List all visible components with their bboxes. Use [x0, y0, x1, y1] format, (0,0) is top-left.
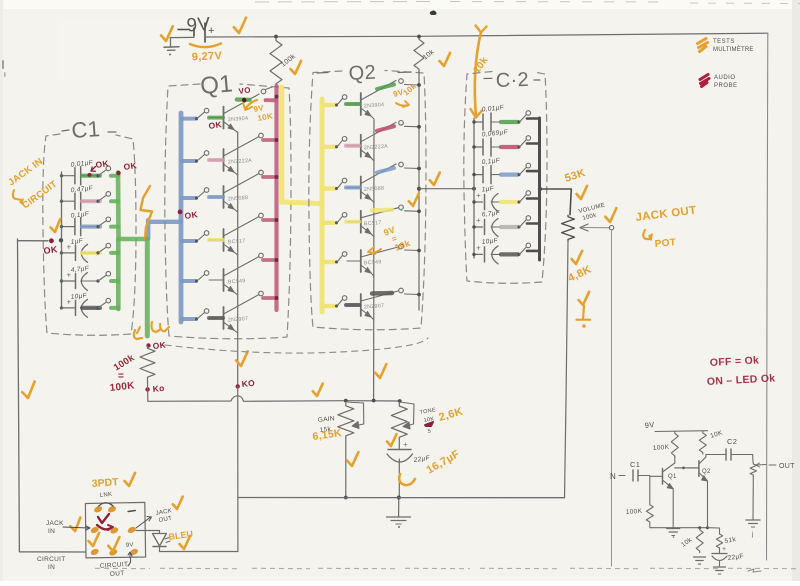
capacitor C2 row2 0,069µF: [474, 129, 509, 156]
checkmark mid rail 2: [312, 384, 324, 397]
wire stub Q2 collector row3: [405, 167, 420, 170]
switch C2 row3: [518, 163, 531, 176]
transistor Q2 row2 2N2222A: [347, 122, 396, 161]
highlight bar C2 row3: [501, 173, 518, 177]
transistor Q2 row6 2N2907: [347, 291, 398, 320]
wire lug row2 to LED: [136, 530, 160, 532]
junction dot pink bus row6: [275, 296, 279, 300]
svg-text:BC549: BC549: [364, 259, 382, 266]
transistor Q2 row3 2N5088: [347, 164, 396, 203]
annotation JACK IN CIRCUIT: [6, 156, 59, 211]
junction dot Q2 right bus row6: [417, 293, 421, 297]
dashed box C2: [464, 72, 547, 284]
switch C1 row4: [96, 243, 110, 254]
wire blue stub Q1 row6: [182, 317, 196, 321]
wire green stub C1 row3: [111, 225, 119, 229]
capacitor C2 row1 0,01µF: [474, 104, 505, 131]
highlight bar C2 row2: [501, 145, 518, 149]
capacitor C1 row5 4,7µF: [62, 265, 98, 290]
junction gain top: [344, 399, 348, 403]
potentiometer GAIN: [317, 402, 363, 439]
svg-text:OK: OK: [95, 158, 110, 170]
red KO at Q1 emitter: [236, 378, 256, 389]
switch Q1 row4: [195, 231, 209, 243]
wire Q2 right bus: [418, 71, 420, 310]
switch Q1 row5 collector contact: [259, 253, 264, 258]
wire C2 to volume pot: [541, 189, 571, 215]
junction dot pink bus row2: [275, 138, 279, 142]
wire yellow stub Q2 row1: [323, 103, 336, 107]
scan speck top: [430, 11, 437, 16]
capacitor C2 row4 1µF: [474, 185, 500, 211]
svg-text:C1: C1: [630, 460, 640, 469]
svg-text:KO: KO: [241, 378, 255, 389]
wire left border: [18, 239, 87, 552]
capacitor C2 row5 6,7µF: [474, 210, 501, 237]
svg-text:BC517: BC517: [364, 220, 382, 227]
red OK mark C1 top right: [116, 160, 138, 175]
checkmark near battery left: [160, 26, 174, 41]
transistor Q1 row1 2N3904: [209, 94, 259, 133]
transistor Q1 row6 2N2907: [209, 295, 259, 334]
wire bias to bottom: [650, 524, 708, 528]
wire yellow stub Q2 row4: [323, 221, 336, 225]
wire green stub C1 row1: [111, 174, 119, 178]
switch C2 row2: [518, 136, 531, 149]
junction dot Q2 right bus row4: [417, 209, 421, 213]
checkmark below 53K: [576, 186, 588, 200]
wire gain to ground rail: [345, 439, 347, 498]
svg-text:100K: 100K: [653, 444, 670, 452]
junction dot Q2 right bus row2: [417, 125, 421, 129]
lug row3 right: [129, 548, 139, 557]
wire blue bus Q1: [179, 113, 184, 322]
wire Q1 emitter bus: [237, 132, 239, 385]
red check arrow in box: [97, 514, 113, 530]
svg-text:JACK: JACK: [46, 520, 64, 527]
checkmark right of wiper: [605, 208, 618, 222]
wire heavy stub C2 row1: [527, 117, 539, 120]
wire yellow stub Q2 row2: [323, 145, 336, 149]
wire blue stub Q1 row5: [182, 279, 196, 283]
wire green stub C1 row6: [111, 306, 119, 310]
wire green down to 100K: [145, 239, 150, 336]
switch C2 row6: [518, 243, 531, 256]
wire 100K bottom to mid rail: [148, 380, 400, 401]
highlight bar Q2 row6 base: [346, 303, 359, 307]
switch Q2 row6 collector contact: [399, 288, 404, 293]
ground symbol out small: [746, 520, 760, 538]
orange double arrow 10k to C2: [471, 26, 491, 118]
wire 9V rail: [170, 33, 768, 37]
potentiometer VOLUME 100K: [562, 203, 606, 242]
checkmark above input: [50, 219, 62, 232]
checkmark above orange ground: [578, 292, 590, 306]
svg-text:9V: 9V: [126, 542, 135, 549]
dashed box Q2: [309, 71, 426, 330]
svg-text:9,27V: 9,27V: [192, 50, 223, 64]
svg-text:OUT: OUT: [110, 570, 125, 578]
svg-text:BC517: BC517: [228, 238, 246, 245]
highlight bar C1 row2: [82, 199, 100, 203]
lug row3 mid: [108, 548, 118, 557]
lug row2 right: [127, 526, 137, 535]
label LNK with arc: [97, 492, 114, 508]
highlight bar C2 row5: [501, 225, 518, 229]
highlight bar C1 row4: [82, 251, 100, 255]
wire heavy stub C2 row5: [527, 222, 539, 225]
svg-text:+: +: [476, 216, 481, 225]
resistor 100K mid: [140, 346, 155, 381]
orange marks at green end: [134, 322, 169, 339]
wire yellow rail Q1 to Q2: [282, 87, 320, 204]
wire in dash: [619, 475, 625, 477]
transistor Q1 row4 BC517: [209, 217, 259, 256]
switch Q1 row2: [195, 151, 209, 163]
switch Q2 row5 collector contact: [399, 244, 404, 249]
svg-text:Q2: Q2: [348, 62, 376, 85]
wire Q2 emitter down: [707, 481, 709, 528]
checkmark near battery right: [233, 18, 247, 34]
wire heavy stub C2 row4: [527, 197, 539, 200]
svg-text:100K: 100K: [626, 508, 643, 516]
svg-text:OK: OK: [208, 119, 223, 131]
label C1: [62, 116, 116, 143]
transistor Q1 row5 BC549: [209, 257, 259, 296]
wire yellow stub Q2 row5: [323, 260, 336, 264]
annotation JACK OUT POT: [635, 205, 697, 250]
jack in wire: [18, 240, 49, 242]
switch Q1 row3 collector contact: [259, 170, 264, 175]
switch 3PDT box: [85, 502, 145, 558]
wire ground rail: [238, 497, 565, 499]
svg-text:Ko: Ko: [152, 383, 165, 394]
capacitor C2 row3 0,1µF: [474, 157, 501, 183]
checkmark left of jack in: [69, 518, 82, 532]
wire yellow stub Q2 row3: [323, 186, 336, 190]
red OK marks C1 row1: [88, 158, 111, 177]
junction dot Q2 right bus row5: [417, 249, 421, 253]
checkmark curved below cap: [399, 474, 415, 485]
transistor Q2 row5 BC549: [347, 247, 398, 276]
checkmark on lug row2: [88, 533, 100, 547]
lug row2 left: [90, 526, 100, 535]
lug row1 mid: [107, 505, 117, 514]
svg-text:POT: POT: [654, 237, 676, 250]
switch Q2 row4 collector contact: [399, 205, 404, 210]
wire 22uF to ground: [398, 498, 400, 517]
wire green stub C1 row4: [111, 251, 119, 255]
wire stub Q2 collector row2: [405, 125, 420, 128]
svg-text:OK: OK: [184, 209, 199, 221]
switch Q1 row5: [195, 271, 209, 283]
resistor small 100K top: [653, 431, 679, 458]
highlight bar Q2 row4 collector: [372, 208, 392, 213]
svg-text:1µF: 1µF: [70, 238, 84, 246]
wire C1 left bus: [61, 172, 63, 308]
label CIRCUIT IN: [37, 556, 65, 571]
wire lug row2 to jack out arrow: [136, 508, 173, 528]
switch Q2 row1 collector contact: [399, 79, 404, 84]
switch Q1 row1 collector to 100K: [261, 87, 272, 94]
highlight bar Q1 row3 base: [209, 195, 223, 199]
ground small 10k: [694, 557, 706, 565]
checkmark near wire Q2-C2: [429, 173, 441, 186]
faint top scan edge: [255, 2, 800, 4]
checkmark left of mid rail: [235, 351, 249, 366]
svg-text:VO: VO: [238, 85, 251, 96]
capacitor C1 small: [633, 470, 650, 481]
wire pink stub Q1 row2: [263, 138, 275, 142]
wire Q2 emitter bus: [373, 120, 375, 401]
wire yellow bus Q2: [320, 99, 325, 312]
potentiometer OUT small: [750, 455, 795, 478]
checkmark below Q2: [375, 364, 388, 378]
resistor small 10K top: [699, 429, 724, 454]
label Q2: [317, 62, 411, 85]
transistor Q1 small: [650, 463, 677, 489]
junction 22uF ground rail: [397, 496, 401, 500]
highlight bar C2 row4: [501, 200, 518, 204]
svg-text:Q2: Q2: [702, 469, 711, 475]
highlight bar Q2 row4 base: [346, 220, 359, 224]
checkmark jack out: [172, 497, 184, 510]
resistor 100K top: [270, 35, 297, 88]
capacitor 22µF: [387, 440, 431, 498]
capacitor C1 row4 1µF: [62, 238, 98, 263]
orange annotation 9V=10k mid Q2: [368, 225, 412, 254]
pencil corner mark: [748, 569, 761, 572]
transistor Q2 row4 BC517: [347, 208, 398, 237]
checkmark far left mid: [21, 382, 37, 399]
wire blue branch to Q1 bus: [148, 220, 181, 239]
wire green stub C1 row5: [111, 279, 119, 283]
wire pink stub Q1 row1: [264, 98, 276, 102]
wire heavy stub C2 row6: [527, 250, 539, 253]
switch Q2 row4: [335, 213, 347, 225]
highlight bar C2 row6: [501, 252, 518, 256]
svg-text:Q1: Q1: [199, 70, 234, 100]
svg-text:CIRCUIT: CIRCUIT: [37, 556, 65, 563]
orange ground mark: [577, 306, 591, 328]
highlight bar Q1 row1 base: [209, 116, 223, 120]
svg-text:OUT: OUT: [779, 463, 795, 470]
svg-text:IN: IN: [48, 528, 55, 535]
capacitor C1 row2 0,47µF: [62, 185, 98, 210]
lug row2 mid: [109, 526, 119, 535]
svg-text:+: +: [722, 546, 726, 553]
ground symbol center: [387, 517, 411, 528]
switch Q2 row1: [335, 95, 347, 107]
svg-text:+: +: [476, 191, 481, 200]
checkmark left of 22uF: [386, 434, 397, 446]
svg-text:C·2: C·2: [495, 69, 529, 92]
highlight bar Q1 row2 base: [209, 158, 223, 162]
highlight bar Q1 row1 collector green: [237, 97, 250, 102]
switch C1 row6: [96, 298, 110, 309]
lug row1 left: [93, 505, 103, 514]
svg-text:PROBE: PROBE: [714, 83, 738, 89]
wire pink bus Q1: [274, 86, 278, 310]
svg-text:C2: C2: [727, 437, 737, 446]
wire stub Q2 collector row1: [405, 84, 420, 87]
svg-text:IN: IN: [48, 564, 55, 571]
dashed outer bottom Q1 Q2: [165, 338, 428, 353]
red OK dot on blue bus: [178, 209, 199, 221]
bottom scan edge dashed line: [95, 567, 800, 569]
wire Q1 emitter down to LED line: [237, 387, 239, 552]
wire Q2 collector junction: [705, 455, 707, 458]
switch Q2 row2: [335, 137, 347, 149]
wire Q1 collector to rail: [674, 456, 676, 463]
wire right border: [767, 33, 768, 560]
red scribble tone wiper: [425, 422, 433, 426]
junction dot pink bus row3: [275, 175, 279, 179]
checkmark near 100K: [290, 61, 302, 75]
capacitor C1 row6 10µF: [62, 292, 98, 317]
capacitor C2 small: [706, 449, 753, 460]
highlight bar C1 row3: [82, 225, 100, 229]
switch Q2 row2 collector contact: [399, 121, 404, 126]
svg-text:+: +: [208, 25, 215, 37]
highlight bar Q2 row6 collector: [372, 291, 392, 296]
switch Q2 row5: [335, 252, 347, 264]
switch Q1 row1: [195, 108, 209, 120]
svg-text:+: +: [403, 440, 408, 449]
transistor Q1 row2 2N2222A: [209, 137, 259, 176]
svg-text:C1: C1: [71, 116, 101, 143]
highlight bar Q2 row1 base: [346, 102, 359, 106]
wire Q2 to C2: [419, 188, 474, 190]
wire wiper down page: [611, 230, 613, 566]
dashed box Q1: [165, 84, 291, 339]
orange squiggle probe mark: [141, 186, 153, 239]
svg-text:OK: OK: [123, 160, 138, 172]
highlight bar C1 row1: [82, 174, 100, 178]
wire blue stub Q1 row4: [182, 239, 196, 243]
checkmark Q2 right bus: [408, 194, 420, 207]
highlight bar Q2 row3 collector: [377, 168, 394, 173]
teal speck: [400, 209, 402, 211]
svg-text:N: N: [610, 472, 616, 481]
resistor small 10k emitter: [680, 528, 703, 553]
switch Q1 row2 collector contact: [259, 133, 264, 138]
resistor 10k top: [414, 35, 436, 72]
switch Q1 row6: [195, 309, 209, 321]
capacitor C2 row6 10µF: [474, 237, 500, 264]
checkmark below gain: [347, 452, 360, 466]
red OK at 100K top: [146, 340, 167, 351]
switch Q1 row3: [195, 188, 209, 200]
highlight bar Q2 row2 collector: [377, 126, 394, 131]
svg-text:MULTIMÈTRE: MULTIMÈTRE: [713, 46, 754, 53]
label JACK IN: [46, 520, 90, 535]
wire heavy stub C2 row3: [527, 170, 539, 173]
capacitor C1 row1 0,01µF: [62, 159, 98, 184]
LED diode: [153, 531, 171, 552]
checkmark on lug row3: [108, 537, 121, 551]
wire OUT pot to ground: [752, 477, 754, 520]
wiper volume pot: [580, 224, 614, 231]
orange annotation 9V=10k top right of Q2: [392, 81, 418, 107]
transistor Q1 row3 2N5088: [209, 174, 259, 213]
switch Q1 row4 collector contact: [259, 213, 264, 218]
checkmark near 10k: [439, 53, 451, 67]
switch Q2 row3: [335, 178, 347, 190]
wire volume pot to ground rail: [565, 242, 569, 498]
switch C1 row5: [96, 271, 110, 282]
svg-text:Q1: Q1: [668, 474, 677, 480]
wire green bus C1 output: [118, 173, 148, 240]
svg-text:AUDIO: AUDIO: [714, 75, 736, 81]
svg-text:OK: OK: [43, 244, 59, 256]
svg-text:9V: 9V: [644, 420, 655, 430]
wire blue stub Q1 row3: [182, 196, 196, 200]
junction dot pink bus row4: [275, 218, 279, 222]
wire C2 left bus: [473, 118, 475, 258]
wire heavy stub C2 row2: [527, 142, 539, 145]
switch Q1 row6 collector contact: [259, 291, 264, 296]
transistor Q2 small: [675, 457, 711, 481]
switch Q2 row6: [335, 296, 347, 308]
svg-text:1µF: 1µF: [481, 185, 495, 193]
highlight bar Q2 row3 base: [346, 186, 359, 190]
highlight bar Q2 row1 collector: [377, 85, 394, 90]
wire pink stub Q1 row3: [263, 175, 275, 179]
wire LED to ground net: [160, 551, 238, 553]
switch C1 row1: [96, 166, 110, 177]
wire pink stub Q1 row6: [263, 296, 275, 300]
highlight bar Q1 row4 base: [209, 238, 223, 242]
wire green stub C1 row2: [111, 199, 119, 203]
resistor small 51k: [708, 528, 737, 550]
ground small 22uF: [714, 566, 726, 568]
svg-text:TESTS: TESTS: [713, 39, 735, 45]
pencil dash row1 right: [128, 511, 135, 512]
svg-text:j: j: [751, 532, 754, 538]
wire small top rail: [655, 430, 708, 433]
dashed box C1: [43, 134, 136, 335]
switch Q2 row3 collector contact: [399, 162, 404, 167]
switch C2 row4: [518, 191, 531, 204]
checkmark below pot: [571, 251, 583, 265]
ground symbol q1 emitter: [667, 529, 680, 538]
capacitor small 22uF: [712, 546, 744, 566]
wire C2 heavy bus: [538, 118, 541, 260]
switch C1 row2: [96, 192, 110, 203]
potentiometer TONE: [391, 402, 436, 440]
battery 9V: [178, 14, 215, 42]
checkmark below BLEU: [179, 536, 191, 550]
wire stub Q2 collector row4: [405, 210, 420, 213]
red KO at 100K bottom: [145, 383, 165, 394]
capacitor C1 row3 0,1µF: [62, 211, 98, 236]
wire stub Q2 collector row6: [405, 293, 420, 296]
svg-text:+: +: [476, 243, 481, 252]
highlight bar C1 row6: [82, 306, 100, 310]
wire Q1 emitter down: [672, 489, 674, 528]
lug row3 left: [90, 548, 100, 557]
transistor Q2 row1 2N3904: [347, 81, 396, 120]
resistor small 100K bottom: [626, 503, 654, 524]
junction C2 output: [538, 187, 542, 191]
svg-text:3PDT: 3PDT: [91, 476, 119, 490]
checkmark next to 3PDT: [124, 473, 136, 487]
wire Q1 base bias: [649, 476, 651, 503]
junction dot Q2 right bus row3: [417, 167, 421, 171]
wire pink stub Q1 row5: [263, 258, 275, 262]
switch C1 row3: [96, 217, 110, 228]
